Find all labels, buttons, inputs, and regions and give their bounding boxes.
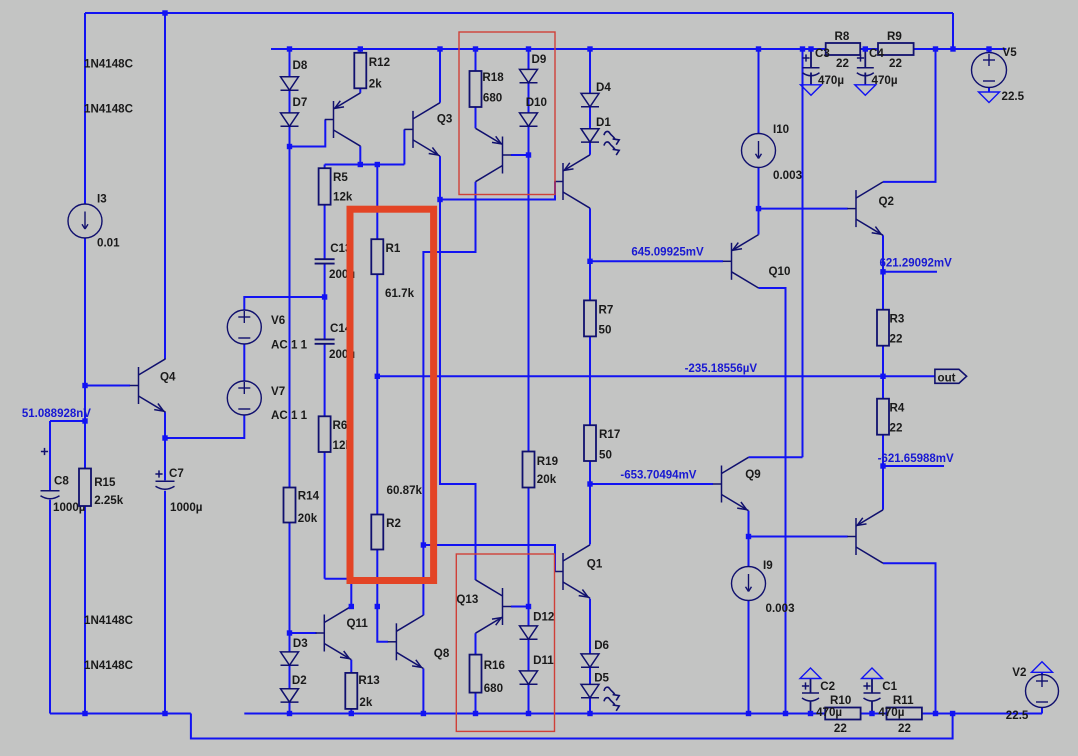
wire D4-D1 link: [589, 107, 591, 129]
junction 21: [587, 259, 592, 264]
transistor Q4: [130, 359, 166, 412]
wire D1 bottom lead: [589, 142, 591, 155]
resistor R12: [354, 53, 366, 89]
wire output PNP base: [749, 536, 848, 538]
wire D11 bottom lead: [528, 684, 530, 713]
junction 12: [933, 46, 938, 51]
diode D6: [581, 654, 599, 667]
wire PNP cascode base: [511, 154, 529, 156]
resistor R5: [319, 168, 331, 205]
svg-text:1N4148C: 1N4148C: [84, 659, 134, 672]
wire node 621 stub: [883, 271, 937, 273]
svg-text:12k: 12k: [333, 191, 353, 204]
wire I9 bottom lead: [748, 601, 750, 714]
transistor Q13: [476, 580, 512, 633]
svg-text:0.003: 0.003: [766, 602, 796, 615]
svg-text:-235.18556µV: -235.18556µV: [685, 363, 758, 375]
svg-text:2.25k: 2.25k: [94, 494, 124, 507]
svg-text:out: out: [938, 371, 956, 384]
wire rail drop: [802, 49, 804, 457]
current source I10: [742, 134, 776, 168]
wire C4 gnd lead: [864, 73, 866, 85]
junction 25: [880, 374, 885, 379]
svg-text:V7: V7: [271, 385, 285, 398]
resistor R2: [371, 515, 383, 550]
current source I9: [732, 567, 766, 601]
svg-text:AC 1 1: AC 1 1: [271, 339, 308, 352]
wire V2 gnd lead: [1041, 673, 1043, 675]
resistor R11: [887, 708, 922, 720]
wire Q3 base lead: [403, 129, 405, 164]
svg-text:AC 1 1: AC 1 1: [271, 409, 308, 422]
svg-text:C3: C3: [815, 47, 830, 60]
wire out net: [377, 375, 935, 377]
diode D8: [281, 77, 299, 90]
resistor R19: [523, 452, 535, 488]
wire Q11 base: [290, 632, 317, 634]
voltage source V5: [972, 53, 1007, 88]
junction 39: [287, 711, 292, 716]
wire C7 bottom lead: [164, 491, 166, 714]
svg-text:D1: D1: [596, 116, 611, 129]
svg-text:1N4148C: 1N4148C: [84, 103, 134, 116]
wire Q9 collector column: [749, 456, 803, 458]
wire C4 top lead: [864, 49, 866, 68]
wire D8-D7 link: [289, 90, 291, 113]
wire driver base: [440, 182, 555, 200]
svg-text:0.01: 0.01: [97, 237, 120, 250]
junction 23: [322, 294, 327, 299]
junction 8: [756, 46, 761, 51]
wire C3 top lead: [810, 49, 812, 68]
wire I10 bottom lead: [758, 168, 760, 235]
svg-text:R18: R18: [482, 71, 504, 84]
junction 13: [950, 46, 955, 51]
junction 1: [162, 10, 167, 15]
svg-text:D3: D3: [293, 637, 308, 650]
resistor R3: [877, 310, 889, 346]
wire emitter to V7: [165, 415, 244, 438]
svg-text:D12: D12: [533, 611, 554, 624]
wire left column upper: [84, 13, 86, 204]
junction 40: [349, 711, 354, 716]
svg-text:2k: 2k: [359, 696, 372, 709]
wire Q4 emitter lead: [164, 412, 166, 480]
junction 46: [783, 711, 788, 716]
svg-text:22: 22: [890, 333, 903, 346]
diode D9: [520, 69, 538, 82]
diode D7: [281, 113, 299, 126]
junction 41: [421, 711, 426, 716]
wire C3 gnd lead: [810, 73, 812, 85]
svg-text:R7: R7: [599, 304, 614, 317]
capacitor C3: [803, 68, 820, 76]
junction 18: [375, 162, 380, 167]
wire C2 top lead: [810, 679, 812, 694]
diode D10: [520, 113, 538, 126]
svg-text:60.87k: 60.87k: [387, 484, 423, 497]
svg-text:R5: R5: [333, 171, 348, 184]
svg-text:R8: R8: [835, 30, 850, 43]
svg-text:-621.65988mV: -621.65988mV: [878, 453, 954, 465]
wire D8 top lead: [289, 49, 291, 77]
wire Q1 base: [423, 545, 555, 572]
diode D1: [581, 129, 599, 142]
capacitor C7: [156, 481, 175, 489]
wire V+ top: [85, 12, 953, 14]
transistor output pnp: [847, 510, 883, 563]
plus C4: [857, 54, 864, 61]
junction 19: [437, 197, 442, 202]
svg-text:22.5: 22.5: [1002, 90, 1025, 103]
wire I10 top lead: [758, 49, 760, 134]
plus C2: [802, 682, 809, 689]
transistor Q9: [713, 457, 749, 510]
wire R12 column: [359, 49, 361, 93]
junction 30: [587, 481, 592, 486]
svg-text:I9: I9: [763, 559, 773, 572]
wire D2 bottom lead: [289, 702, 291, 713]
svg-text:R19: R19: [537, 455, 559, 468]
svg-text:470µ: 470µ: [878, 706, 904, 719]
wire node -621 stub: [883, 465, 944, 467]
wire R16 column: [475, 633, 477, 713]
junction 48: [869, 711, 874, 716]
wire V2 bottom lead: [1041, 707, 1043, 713]
junction 36: [287, 630, 292, 635]
svg-text:R13: R13: [358, 674, 380, 687]
junction 45: [746, 711, 751, 716]
junction 5: [473, 46, 478, 51]
wire Q1 emitter lead: [589, 599, 591, 654]
svg-text:V6: V6: [271, 314, 286, 327]
resistor R13: [345, 673, 357, 709]
LED arrows D1: [604, 131, 619, 155]
junction 47: [808, 711, 813, 716]
junction 26: [82, 383, 87, 388]
svg-text:470µ: 470µ: [816, 706, 842, 719]
wire left column lower: [84, 238, 86, 714]
wire V- rail: [244, 713, 1042, 715]
plus C8: [41, 448, 48, 455]
svg-text:C4: C4: [869, 47, 884, 60]
svg-text:R16: R16: [484, 659, 506, 672]
wire V5 gnd lead: [988, 88, 990, 93]
wire Q10 collector jog: [759, 288, 786, 714]
wire V6 top lead: [244, 297, 324, 310]
wire VAS collector lead: [359, 146, 361, 164]
junction 14: [986, 46, 991, 51]
resistor R10: [825, 708, 860, 720]
capacitor C2: [802, 693, 819, 701]
svg-text:22.5: 22.5: [1006, 709, 1029, 722]
transistor Q1: [554, 545, 590, 598]
transistor Q8: [388, 615, 424, 668]
resistor R4: [877, 399, 889, 435]
wire D7 to R14: [289, 126, 291, 652]
svg-text:R15: R15: [94, 476, 116, 489]
svg-text:0.003: 0.003: [773, 169, 803, 182]
transistor cascode pnp: [476, 128, 512, 181]
wire C8 bottom lead: [49, 500, 51, 714]
junction 49: [933, 711, 938, 716]
junction 10: [808, 46, 813, 51]
wire R6 to node: [325, 579, 352, 607]
wire Q9 emitter lead: [748, 511, 750, 567]
port out: [935, 369, 967, 383]
wire D5 bottom lead: [589, 698, 591, 714]
wire Q11 collector lead: [350, 660, 352, 714]
wire V+ rail: [271, 48, 1006, 50]
junction 31: [746, 534, 751, 539]
wire bottom rail left: [50, 713, 191, 715]
wire node to base: [290, 120, 326, 147]
svg-text:50: 50: [599, 449, 612, 462]
plus C1: [863, 682, 870, 689]
wire D9 top lead: [528, 49, 530, 69]
junction 28: [162, 435, 167, 440]
svg-text:R6: R6: [333, 419, 348, 432]
svg-text:2k: 2k: [369, 78, 382, 91]
junction 38: [162, 711, 167, 716]
wire Q2 collector jog: [883, 49, 936, 182]
svg-text:22: 22: [834, 722, 847, 735]
svg-text:61.7k: 61.7k: [385, 287, 415, 300]
wire V5 top lead: [988, 49, 990, 53]
transistor Q10: [723, 235, 759, 288]
capacitor C13: [315, 259, 335, 263]
wire to C8: [50, 420, 85, 422]
wire D9-D10 link: [528, 83, 530, 113]
junction 3: [358, 46, 363, 51]
capacitor C1: [864, 693, 881, 701]
svg-text:R2: R2: [386, 517, 401, 530]
capacitor C8: [41, 491, 60, 499]
wire D12-D11 link: [528, 639, 530, 671]
resistor R15: [79, 469, 91, 507]
svg-text:C1: C1: [882, 680, 897, 693]
resistor R14: [284, 488, 296, 523]
wire V6-V7 link: [243, 344, 245, 381]
wire output PNP collector: [883, 563, 936, 713]
svg-text:V5: V5: [1003, 46, 1018, 59]
svg-text:R17: R17: [599, 428, 620, 441]
svg-text:C8: C8: [54, 475, 69, 488]
svg-text:I3: I3: [97, 193, 107, 206]
svg-text:Q13: Q13: [456, 593, 478, 606]
wire R5 top rail: [325, 164, 405, 166]
junction 15: [287, 144, 292, 149]
resistor R18: [470, 71, 482, 107]
diode D2: [281, 689, 299, 702]
svg-text:1N4148C: 1N4148C: [84, 58, 134, 71]
transistor Q2: [847, 182, 883, 235]
junction 34: [375, 604, 380, 609]
junction 22: [880, 269, 885, 274]
svg-text:D8: D8: [293, 59, 308, 72]
junction 35: [526, 604, 531, 609]
junction 4: [437, 46, 442, 51]
svg-text:D5: D5: [594, 672, 609, 685]
diode D11: [520, 671, 538, 684]
capacitor C14: [315, 339, 335, 343]
svg-text:Q4: Q4: [160, 371, 176, 384]
resistor R16: [470, 655, 482, 693]
LED arrows D5: [604, 687, 619, 711]
svg-text:R12: R12: [369, 56, 390, 69]
transistor Q3: [404, 103, 440, 156]
svg-text:R3: R3: [890, 313, 905, 326]
svg-text:I10: I10: [773, 123, 789, 136]
wire R6 column: [324, 344, 326, 579]
voltage source V7: [227, 381, 261, 415]
svg-text:V2: V2: [1012, 666, 1026, 679]
svg-text:C7: C7: [169, 467, 184, 480]
svg-text:Q11: Q11: [347, 617, 369, 630]
svg-text:R14: R14: [298, 490, 320, 503]
wire C2 bottom lead: [810, 701, 812, 714]
wire D4 top lead: [589, 49, 591, 93]
wire R18 column: [475, 49, 477, 128]
junction 16: [526, 152, 531, 157]
svg-text:621.29092mV: 621.29092mV: [880, 258, 953, 270]
wire bottom bypass rail: [191, 714, 953, 739]
resistor R17: [584, 425, 596, 461]
wire C1 top lead: [871, 679, 873, 694]
junction 2: [287, 46, 292, 51]
junction 7: [587, 46, 592, 51]
svg-text:22: 22: [836, 57, 849, 70]
annotation thin red box top: [459, 32, 555, 195]
junction 50: [950, 711, 955, 716]
annotation thin red box bottom: [456, 554, 554, 731]
svg-text:Q2: Q2: [879, 195, 894, 208]
wire node to Q8 base: [377, 607, 388, 642]
wire C13-C14 link: [324, 264, 326, 339]
ground V5: [979, 92, 1000, 103]
wire Q4 base: [85, 385, 130, 387]
wire Q3 collector lead: [439, 49, 441, 103]
junction 37: [82, 711, 87, 716]
wire Q4 collector column: [164, 13, 166, 359]
wire Vamp base link: [590, 260, 723, 262]
wire C1 bottom lead: [871, 701, 873, 714]
wire Q13 base: [511, 606, 529, 608]
svg-text:-653.70494mV: -653.70494mV: [620, 470, 696, 482]
wire Q2 base link: [759, 208, 848, 210]
svg-text:R1: R1: [386, 242, 401, 255]
annotation thick red box: [350, 209, 434, 580]
wire C8 top lead: [49, 421, 51, 490]
wire R7-R17 column: [589, 208, 591, 544]
svg-text:D4: D4: [596, 81, 611, 94]
svg-text:D2: D2: [292, 674, 307, 687]
svg-text:C2: C2: [820, 680, 835, 693]
svg-text:51.088928nV: 51.088928nV: [22, 408, 91, 420]
wire D3-D2 link: [289, 665, 291, 688]
wire D6-D5 link: [589, 667, 591, 684]
wire D10 to R19 column: [528, 126, 530, 626]
resistor R6: [319, 416, 331, 452]
junction 9: [800, 46, 805, 51]
junction 44: [587, 711, 592, 716]
svg-text:645.09925mV: 645.09925mV: [631, 247, 704, 259]
svg-text:Q9: Q9: [745, 468, 761, 481]
capacitor C4: [857, 68, 874, 76]
junction 6: [526, 46, 531, 51]
svg-text:Q10: Q10: [769, 265, 791, 278]
svg-text:50: 50: [599, 324, 612, 337]
wire Q9 base: [590, 483, 713, 485]
wire cascode collector: [423, 182, 475, 616]
junction 20: [756, 206, 761, 211]
wire Q2 emitter to R3: [882, 235, 884, 510]
svg-text:22: 22: [890, 422, 903, 435]
wire R5-C13-C14-R6 column: [324, 165, 326, 260]
svg-text:Q1: Q1: [587, 558, 603, 571]
ground C1: [862, 668, 883, 679]
junction 29: [880, 463, 885, 468]
resistor R7: [584, 300, 596, 336]
svg-text:1000µ: 1000µ: [170, 501, 202, 514]
plus C7: [155, 470, 162, 477]
svg-text:D9: D9: [532, 53, 547, 66]
diode D12: [520, 626, 538, 639]
diode D4: [581, 93, 599, 106]
ground C3: [801, 85, 822, 96]
svg-text:20k: 20k: [298, 512, 318, 525]
junction 32: [421, 542, 426, 547]
wire Q8 emitter lead: [422, 669, 424, 714]
ground C2: [800, 668, 821, 679]
plus C3: [802, 54, 809, 61]
svg-text:680: 680: [484, 682, 503, 695]
svg-text:R4: R4: [890, 402, 905, 415]
junction 43: [526, 711, 531, 716]
diode D5: [581, 684, 599, 697]
transistor VAS pnp: [325, 93, 361, 146]
wire R1-R2 column: [376, 165, 378, 607]
svg-text:680: 680: [483, 92, 502, 105]
junction 27: [82, 418, 87, 423]
current source I3: [68, 204, 102, 238]
svg-text:22: 22: [889, 57, 902, 70]
transistor driver top: [554, 155, 590, 208]
svg-text:D11: D11: [533, 654, 554, 667]
resistor R1: [371, 239, 383, 274]
junction 11: [863, 46, 868, 51]
resistor R9: [878, 43, 914, 55]
ground C4: [855, 85, 876, 96]
svg-text:20k: 20k: [537, 473, 557, 486]
svg-text:22: 22: [898, 722, 911, 735]
resistor R8: [826, 43, 861, 55]
junction 24: [375, 374, 380, 379]
svg-text:Q3: Q3: [437, 113, 453, 126]
svg-text:D7: D7: [293, 96, 308, 109]
svg-text:D10: D10: [526, 96, 547, 109]
svg-text:D6: D6: [594, 639, 609, 652]
diode D3: [281, 652, 299, 665]
junction 33: [349, 604, 354, 609]
voltage source V2: [1026, 675, 1059, 708]
svg-text:Q8: Q8: [434, 647, 450, 660]
transistor Q11: [316, 606, 352, 659]
junction 42: [473, 711, 478, 716]
svg-text:1N4148C: 1N4148C: [84, 614, 134, 627]
wire Q3 emitter column: [440, 156, 476, 580]
voltage source V6: [227, 310, 261, 344]
